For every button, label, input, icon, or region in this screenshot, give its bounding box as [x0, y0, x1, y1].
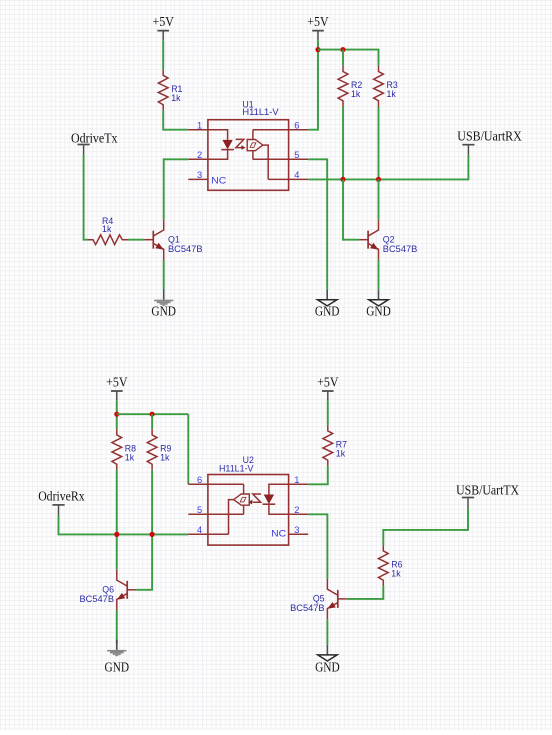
svg-text:GND: GND: [315, 304, 340, 319]
wire U1 pin 5 to GND: [308, 159, 327, 289]
U1 pin 3: [188, 170, 208, 180]
junction node / R8 bottom: [114, 532, 119, 537]
transistor Q1: [144, 220, 163, 260]
svg-text:1k: 1k: [125, 453, 135, 463]
label U1: [242, 100, 253, 110]
U2 pin 3 NC label: [271, 528, 286, 538]
svg-text:Q5: Q5: [313, 594, 325, 604]
svg-text:NC: NC: [211, 175, 226, 185]
transistor Q6: [117, 570, 136, 610]
wire node to Q2 base h: [343, 239, 359, 241]
U1 pin 1: [188, 120, 208, 130]
svg-text:+5V: +5V: [317, 375, 339, 390]
svg-text:GND: GND: [315, 659, 340, 674]
wire R6 to Q5 base: [347, 586, 384, 599]
net label OdriveTx: [71, 131, 118, 155]
svg-text:+5V: +5V: [153, 14, 175, 29]
U2 photon arrow: [248, 494, 261, 504]
svg-text:2: 2: [294, 505, 299, 515]
svg-text:GND: GND: [151, 304, 176, 319]
wire R7 to U2 pin 1: [308, 466, 328, 484]
transistor Q2: [359, 220, 378, 260]
value H11L1-V (U1): [242, 107, 278, 117]
wire R1 to U1 pin 1: [163, 110, 188, 129]
svg-text:BC547B: BC547B: [80, 594, 115, 604]
resistor R7: [323, 425, 333, 466]
value 1k (R4): [102, 224, 112, 234]
svg-text:NC: NC: [271, 528, 286, 538]
wire Q6 emitter to GND: [116, 610, 118, 643]
svg-text:USB/UartRX: USB/UartRX: [457, 129, 522, 144]
svg-text:2: 2: [197, 150, 202, 160]
svg-text:1k: 1k: [160, 453, 170, 463]
svg-text:4: 4: [294, 170, 299, 180]
wire OdriveTx to R4: [84, 155, 88, 240]
value 1k (R7): [336, 449, 346, 459]
svg-text:1k: 1k: [391, 569, 401, 579]
value 1k (R1): [171, 93, 181, 103]
resistor R2: [338, 66, 348, 107]
transistor Q5: [327, 579, 346, 619]
label R7: [336, 439, 347, 449]
svg-text:BC547B: BC547B: [383, 244, 418, 254]
resistor R8: [112, 429, 122, 470]
wire +5V P1 to R1: [162, 40, 164, 70]
resistor R3: [374, 66, 384, 107]
value 1k (R9): [160, 453, 170, 463]
value 1k (R6): [391, 569, 401, 579]
wire Q1 emitter to GND: [163, 260, 165, 289]
U1 pin 4: [289, 170, 309, 180]
value 1k (R2): [351, 89, 361, 99]
svg-text:+5V: +5V: [307, 14, 329, 29]
svg-text:6: 6: [294, 120, 299, 130]
value BC547B (Q2): [383, 244, 418, 254]
op-to-coupler U1 box: [208, 120, 289, 191]
value BC547B (Q6): [80, 594, 115, 604]
U2 pin 6: [188, 475, 208, 485]
wire R8 to OdriveRx node / Q6 collector: [116, 470, 118, 570]
ground GND (Q2): [366, 290, 391, 319]
ground GND (Q6): [105, 640, 130, 675]
wire R3 to output node: [378, 107, 380, 180]
U1 LED: [208, 130, 234, 160]
junction output / R3-Q2 collector: [376, 177, 381, 182]
U2 pin 4: [188, 525, 208, 535]
label U2: [243, 455, 254, 465]
svg-text:GND: GND: [366, 304, 391, 319]
wire R2 node to Q2 base: [343, 179, 344, 239]
label Q2: [383, 234, 395, 244]
svg-text:+5V: +5V: [106, 375, 128, 390]
resistor R6: [378, 545, 388, 586]
power +5V P4: [317, 375, 339, 401]
label R6: [391, 559, 402, 569]
value 1k (R8): [125, 453, 135, 463]
power +5V P3: [106, 375, 128, 401]
junction P2 rail tap: [315, 47, 320, 52]
wire OdriveRx to U2 pin 4: [59, 515, 189, 535]
svg-text:5: 5: [294, 150, 299, 160]
label R8: [125, 443, 136, 453]
svg-text:GND: GND: [105, 659, 130, 674]
net label USB/UartTX: [456, 483, 519, 508]
wire U1 pin 4 to USB/UartRX: [308, 155, 468, 180]
wire R4 to Q1 base: [128, 239, 144, 241]
svg-text:1k: 1k: [336, 449, 346, 459]
svg-text:1k: 1k: [387, 89, 397, 99]
label R1: [171, 84, 182, 94]
ground GND (U1 pin5): [315, 290, 340, 319]
wire rail to R2: [342, 50, 344, 66]
op-to-coupler U2 box: [208, 475, 289, 546]
wire R2 to output node: [342, 107, 344, 180]
ground GND (Q5): [315, 645, 340, 675]
svg-text:1: 1: [294, 475, 299, 485]
label R4: [102, 216, 113, 226]
svg-text:3: 3: [197, 170, 202, 180]
value BC547B (Q1): [168, 244, 203, 254]
svg-text:OdriveRx: OdriveRx: [38, 489, 85, 504]
svg-text:Q2: Q2: [383, 234, 395, 244]
value BC547B (Q5): [290, 603, 325, 613]
U2 pin 3: [289, 525, 309, 535]
wire Q1 collector to U1 pin 2: [164, 159, 189, 219]
ground GND (Q1): [151, 290, 176, 319]
svg-text:Q1: Q1: [168, 234, 180, 244]
value H11L1-V (U2): [219, 463, 254, 473]
wire Q2 emitter to GND: [378, 260, 380, 289]
junction P3 rail tap: [114, 412, 119, 417]
svg-text:1k: 1k: [171, 93, 181, 103]
svg-text:H11L1-V: H11L1-V: [219, 463, 254, 473]
wire R9 to Q6 base: [136, 470, 152, 590]
power +5V P2: [307, 14, 329, 40]
resistor R4: [87, 235, 128, 245]
junction node / R9 bottom: [150, 532, 155, 537]
U2 pin 5: [188, 505, 208, 515]
U1 detector: [247, 130, 288, 180]
U1 pin 6: [289, 120, 309, 130]
label Q6: [102, 585, 114, 595]
svg-text:1: 1: [197, 120, 202, 130]
label R9: [160, 443, 171, 453]
U2 detector: [208, 484, 249, 534]
resistor R9: [147, 429, 157, 470]
resistor R1: [158, 70, 168, 111]
wire +5V bottom rail: [117, 413, 189, 415]
svg-text:H11L1-V: H11L1-V: [242, 107, 278, 117]
junction rail / R9 top: [150, 412, 155, 417]
svg-text:Q6: Q6: [102, 585, 114, 595]
label Q1: [168, 234, 180, 244]
junction rail / R2 top: [340, 47, 345, 52]
U2 pin 1: [289, 475, 309, 485]
wire +5V rail to R3: [318, 50, 379, 66]
U1 photon arrow: [236, 139, 246, 149]
wire +5V P2 down to U1 pin 6: [308, 40, 318, 129]
svg-text:USB/UartTX: USB/UartTX: [456, 483, 519, 498]
junction output / R2-Q2 base: [340, 177, 345, 182]
power +5V P1: [153, 14, 175, 40]
U1 pin 3 NC label: [211, 175, 226, 185]
U2 pin 2: [289, 505, 309, 515]
net label OdriveRx: [38, 489, 85, 515]
wire +5V P4 to R7: [327, 401, 329, 426]
value 1k (R3): [387, 89, 397, 99]
wire rail to U2 pin 6: [187, 414, 189, 484]
label R2: [351, 80, 362, 90]
net label USB/UartRX: [457, 129, 522, 155]
svg-text:OdriveTx: OdriveTx: [71, 131, 118, 146]
svg-text:3: 3: [294, 525, 299, 535]
U1 pin 5: [289, 150, 309, 160]
svg-text:BC547B: BC547B: [290, 603, 325, 613]
wire Q5 emitter to GND: [326, 619, 328, 644]
U2 LED: [263, 484, 289, 514]
svg-text:5: 5: [197, 505, 202, 515]
svg-text:BC547B: BC547B: [168, 244, 203, 254]
svg-text:1k: 1k: [351, 89, 361, 99]
svg-text:1k: 1k: [102, 224, 112, 234]
label Q5: [313, 594, 325, 604]
wire +5V P3 to R8: [116, 401, 118, 430]
svg-text:6: 6: [197, 475, 202, 485]
wire U2 pin 2 to Q5 collector: [308, 514, 327, 579]
wire rail to R9: [151, 414, 153, 429]
wire USB/UartTX to R6: [383, 508, 468, 546]
wire R3 node to Q2 collector: [378, 179, 380, 219]
label R3: [387, 80, 398, 90]
U1 pin 2: [188, 150, 208, 160]
svg-text:4: 4: [197, 525, 202, 535]
